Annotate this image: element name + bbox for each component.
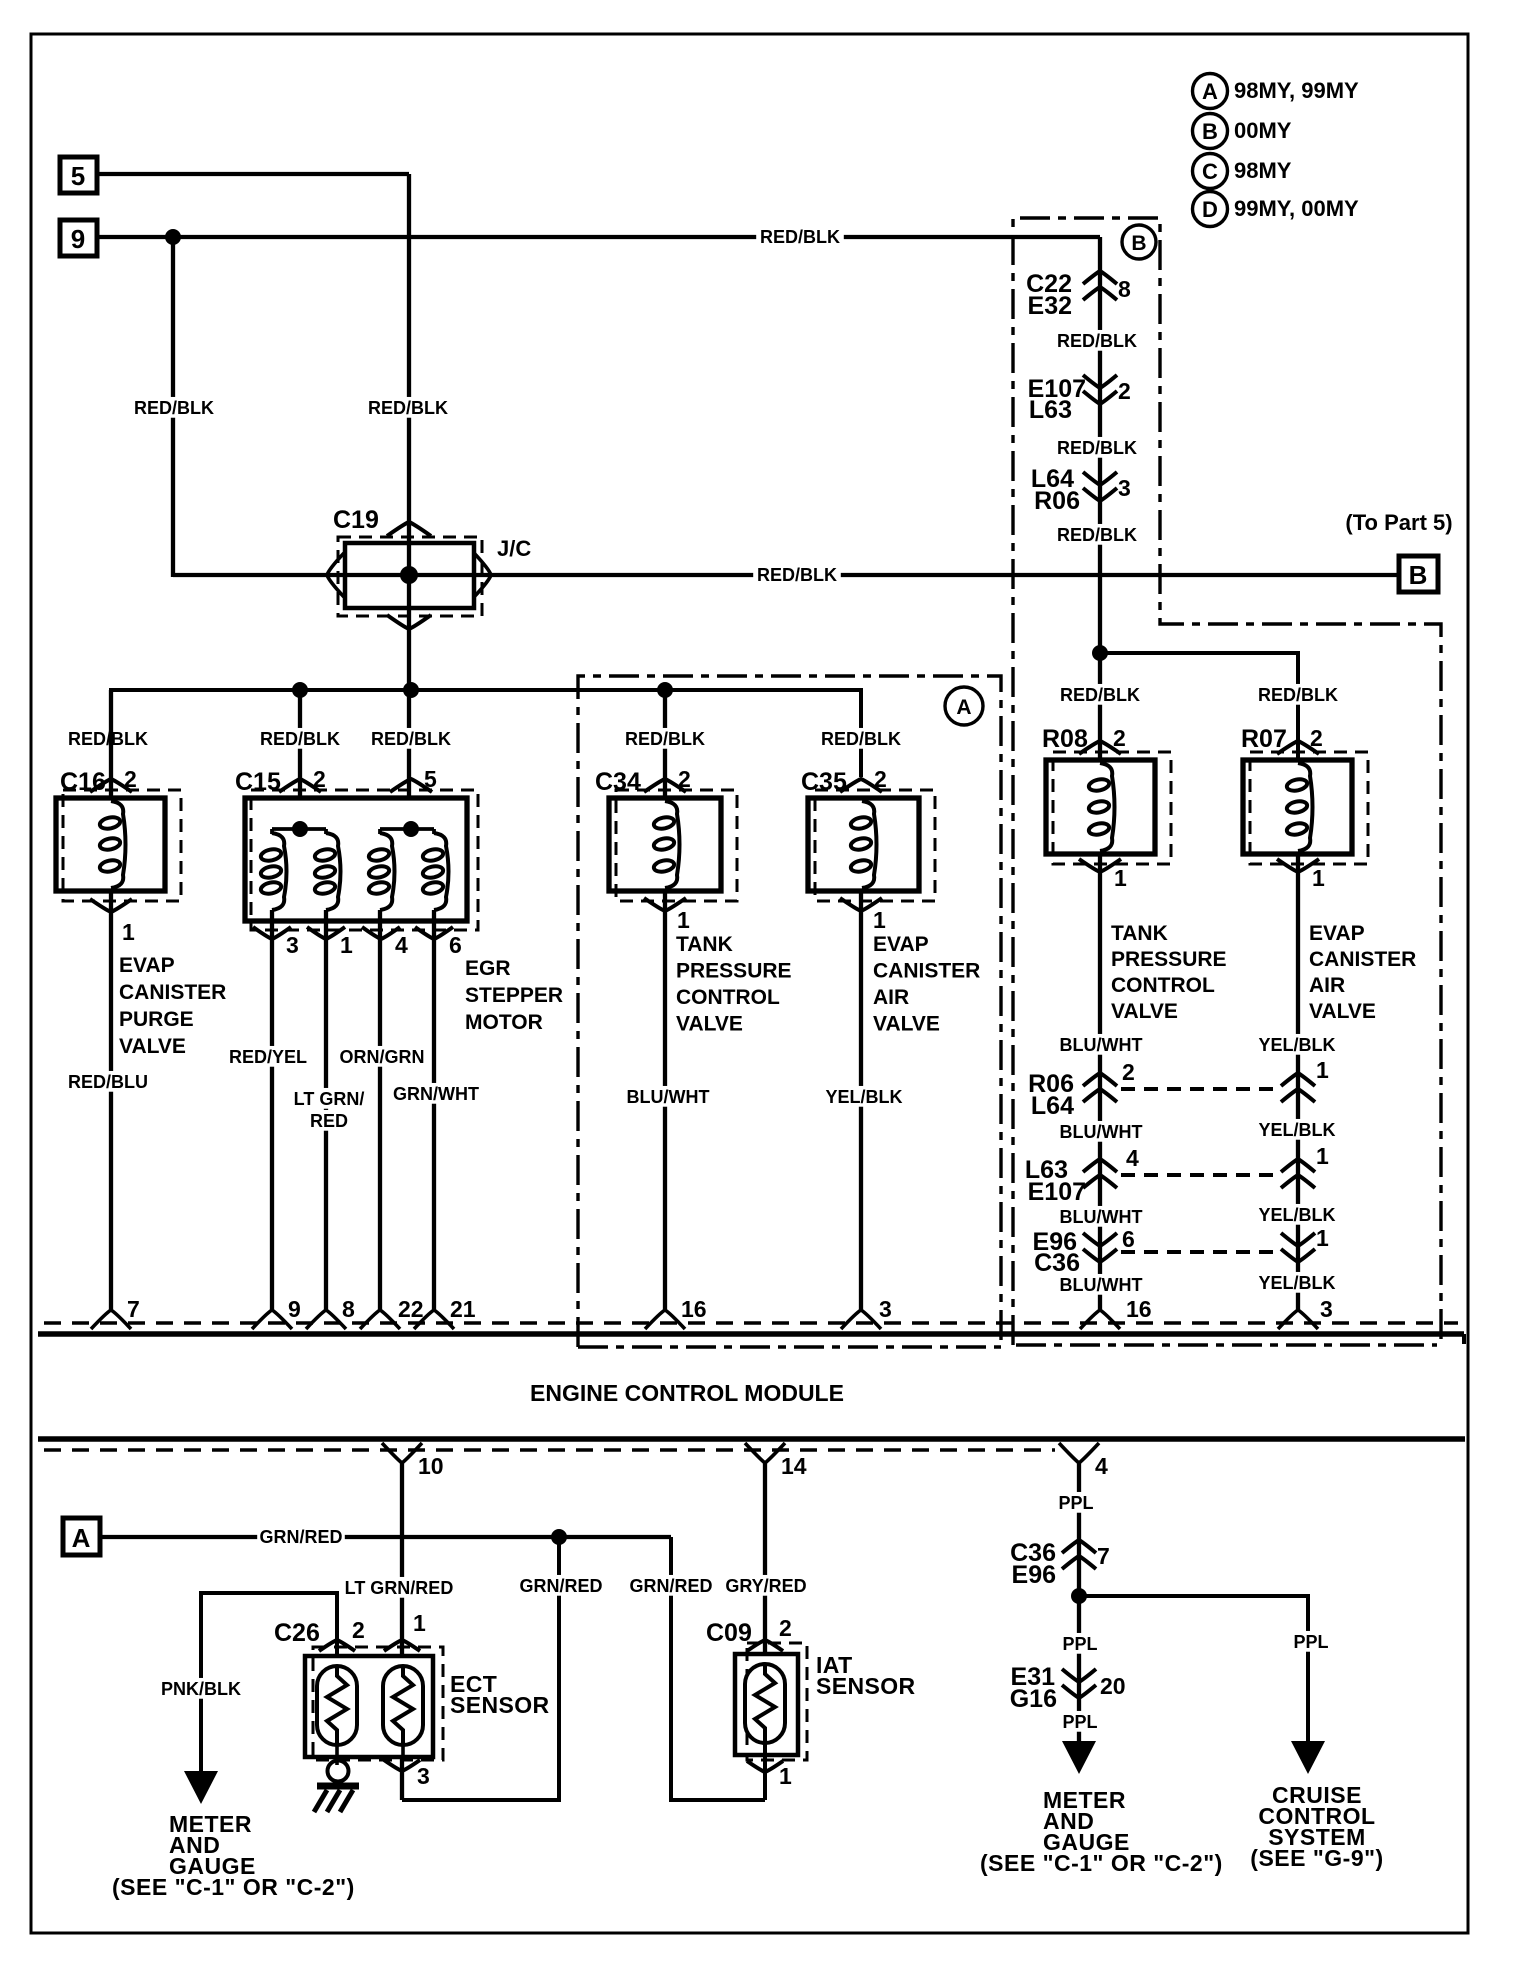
- svg-text:16: 16: [1126, 1296, 1152, 1322]
- inline connector mate pin 1 (row 1): [1281, 1057, 1329, 1102]
- svg-text:22: 22: [398, 1296, 424, 1322]
- label ORN/GRN: [338, 1046, 426, 1067]
- inline connector L63/E107 pin 4: [1025, 1145, 1139, 1206]
- svg-text:PPL: PPL: [1058, 1493, 1093, 1513]
- svg-text:L64: L64: [1031, 1092, 1074, 1120]
- solenoid valve C16 (EVAP canister purge valve): [56, 690, 181, 945]
- svg-text:2: 2: [124, 766, 137, 792]
- dashed link row 3: [1121, 1250, 1278, 1254]
- svg-text:9: 9: [71, 224, 85, 254]
- wire GRN/RED from terminal A: [100, 1535, 671, 1539]
- svg-text:RED/BLK: RED/BLK: [1057, 525, 1137, 545]
- ECM pin 14 chevron: [745, 1443, 807, 1479]
- label YEL/BLK row2: [1253, 1119, 1341, 1140]
- ECM connector dashed edge (lower): [44, 1448, 1055, 1452]
- svg-text:YEL/BLK: YEL/BLK: [1258, 1273, 1335, 1293]
- svg-text:2: 2: [313, 766, 326, 792]
- wire vertical from 5 to C19 and C15 pin 5: [407, 174, 411, 798]
- svg-text:LT GRN/: LT GRN/: [294, 1089, 365, 1109]
- svg-text:CANISTER: CANISTER: [119, 981, 226, 1004]
- label RED/BLK (R07 feed): [1254, 684, 1342, 705]
- svg-text:RED/YEL: RED/YEL: [229, 1047, 307, 1067]
- svg-text:8: 8: [342, 1296, 355, 1322]
- wire RED/BLK to (To Part 5) B: [173, 573, 1399, 577]
- wire GRN/RED drop to ECT pin3 link: [402, 1537, 559, 1800]
- legend note D: [1193, 192, 1360, 227]
- wire C15 pin3 to ECM pin 9 (RED/YEL): [270, 921, 274, 1311]
- svg-text:B: B: [1409, 560, 1428, 590]
- ECM pin 16 chevron: [1080, 1296, 1152, 1329]
- wire PNK/BLK from ECT pin2 to meter arrow: [201, 1593, 337, 1772]
- svg-text:CANISTER: CANISTER: [1309, 948, 1416, 971]
- svg-text:R06: R06: [1034, 487, 1080, 515]
- label EVAP CANISTER AIR VALVE (C35): [873, 933, 980, 1036]
- svg-text:L63: L63: [1029, 396, 1072, 424]
- svg-text:C26: C26: [274, 1619, 320, 1647]
- svg-text:STEPPER: STEPPER: [465, 984, 563, 1007]
- svg-text:2: 2: [1122, 1059, 1135, 1085]
- svg-text:GRY/RED: GRY/RED: [725, 1576, 806, 1596]
- wire LT GRN/RED from ECM pin 10 to ECT pin 1: [400, 1463, 404, 1656]
- svg-text:YEL/BLK: YEL/BLK: [825, 1087, 902, 1107]
- svg-text:PRESSURE: PRESSURE: [676, 960, 792, 983]
- ECM pin 22 chevron: [360, 1296, 424, 1329]
- svg-text:GRN/RED: GRN/RED: [259, 1527, 342, 1547]
- ECM pin 10 chevron: [382, 1443, 444, 1479]
- svg-text:1: 1: [873, 907, 886, 933]
- label RED/BLK bus drop: [64, 728, 152, 749]
- svg-text:J/C: J/C: [497, 536, 531, 561]
- label LT GRN/RED: [285, 1088, 373, 1131]
- svg-text:PURGE: PURGE: [119, 1008, 194, 1031]
- svg-text:4: 4: [1095, 1453, 1108, 1479]
- svg-text:AIR: AIR: [1309, 974, 1345, 997]
- label EVAP CANISTER PURGE VALVE: [119, 954, 226, 1058]
- svg-text:YEL/BLK: YEL/BLK: [1258, 1205, 1335, 1225]
- label RED/BLU: [64, 1071, 152, 1092]
- node junction C15 pin2 feed: [292, 682, 308, 698]
- label RED/BLK bus drop: [256, 728, 344, 749]
- svg-text:2: 2: [1113, 725, 1126, 751]
- svg-text:4: 4: [395, 932, 408, 958]
- ECM pin 16 chevron: [645, 1296, 707, 1329]
- wire branch to R07: [1100, 653, 1298, 760]
- svg-text:1: 1: [122, 919, 135, 945]
- svg-text:TANK: TANK: [676, 933, 733, 956]
- ECM upper bus solid line: [38, 1331, 1464, 1337]
- svg-text:(To Part 5): (To Part 5): [1345, 510, 1452, 535]
- junction connector C19 (J/C): [327, 506, 531, 629]
- svg-text:C09: C09: [706, 1619, 752, 1647]
- svg-text:E107: E107: [1028, 1178, 1086, 1206]
- label YEL/BLK (C35): [820, 1086, 908, 1107]
- connector terminal A: [63, 1518, 100, 1555]
- svg-text:3: 3: [286, 932, 299, 958]
- svg-text:RED/BLK: RED/BLK: [68, 729, 148, 749]
- label EGR STEPPER MOTOR: [465, 957, 563, 1034]
- svg-text:VALVE: VALVE: [1309, 1000, 1376, 1023]
- label CRUISE CONTROL SYSTEM (SEE G-9): [1250, 1782, 1383, 1871]
- svg-text:2: 2: [1118, 378, 1131, 404]
- svg-text:RED/BLK: RED/BLK: [1258, 685, 1338, 705]
- inline connector L64/R06 pin 3: [1031, 465, 1131, 515]
- solenoid valve R07 (EVAP canister air valve): [1241, 725, 1368, 891]
- svg-text:CANISTER: CANISTER: [873, 960, 980, 983]
- svg-text:BLU/WHT: BLU/WHT: [1060, 1207, 1143, 1227]
- label RED/BLK on long wire: [753, 564, 841, 585]
- ECT pin 3 chevron: [384, 1760, 430, 1789]
- svg-text:4: 4: [1126, 1145, 1139, 1171]
- svg-text:RED/BLK: RED/BLK: [757, 565, 837, 585]
- wire C15 pin4 to ECM pin 22 (ORN/GRN): [378, 921, 382, 1311]
- svg-text:PPL: PPL: [1062, 1634, 1097, 1654]
- svg-text:1: 1: [413, 1610, 426, 1636]
- svg-text:5: 5: [71, 161, 85, 191]
- label YEL/BLK row4: [1253, 1272, 1341, 1293]
- inline connector C36/E96 pin 7: [1010, 1539, 1110, 1589]
- label METER AND GAUGE (SEE C-1 OR C-2) right: [980, 1787, 1223, 1876]
- wire drop to C34 pin 2: [663, 690, 667, 798]
- connector terminal B (To Part 5): [1399, 556, 1438, 592]
- svg-text:20: 20: [1100, 1673, 1126, 1699]
- svg-text:B: B: [1131, 232, 1146, 255]
- svg-text:1: 1: [1114, 865, 1127, 891]
- svg-text:SENSOR: SENSOR: [450, 1692, 550, 1718]
- wire R07 pin1 to ECM pin 3 (YEL/BLK): [1296, 854, 1300, 1311]
- label RED/BLK bus drop: [621, 728, 709, 749]
- svg-text:D: D: [1202, 197, 1218, 222]
- svg-text:21: 21: [450, 1296, 476, 1322]
- svg-text:C: C: [1202, 159, 1218, 184]
- ECM pin 8 chevron: [306, 1296, 355, 1329]
- svg-text:TANK: TANK: [1111, 922, 1168, 945]
- solenoid valve C35 (EVAP canister air valve): [801, 766, 935, 933]
- wire R08 pin1 to ECM pin 16 (BLU/WHT): [1098, 854, 1102, 1311]
- svg-text:1: 1: [1312, 865, 1325, 891]
- svg-text:RED/BLK: RED/BLK: [625, 729, 705, 749]
- label RED/BLK wire to C19: [364, 397, 452, 418]
- svg-text:(SEE "C-1" OR "C-2"): (SEE "C-1" OR "C-2"): [112, 1874, 355, 1900]
- svg-text:CONTROL: CONTROL: [1111, 974, 1215, 997]
- svg-text:VALVE: VALVE: [119, 1035, 186, 1058]
- svg-text:C19: C19: [333, 506, 379, 534]
- label BLU/WHT row4: [1057, 1274, 1145, 1295]
- arrow to meter and gauge (right): [1062, 1741, 1096, 1774]
- svg-text:VALVE: VALVE: [676, 1013, 743, 1036]
- svg-text:C16: C16: [60, 768, 106, 796]
- node junction C34 feed: [657, 682, 673, 698]
- svg-text:BLU/WHT: BLU/WHT: [627, 1087, 710, 1107]
- label YEL/BLK row3: [1253, 1204, 1341, 1225]
- legend note A: [1193, 74, 1360, 109]
- wire C35 pin1 to ECM pin 3 (YEL/BLK): [859, 891, 863, 1311]
- wire RED/BLK 00MY branch down (C22/E32 path): [1098, 237, 1102, 760]
- svg-text:RED/BLK: RED/BLK: [371, 729, 451, 749]
- inline connector mate pin 1 (row 2): [1281, 1143, 1329, 1188]
- svg-text:E96: E96: [1012, 1561, 1056, 1589]
- svg-text:1: 1: [1316, 1143, 1329, 1169]
- svg-text:RED: RED: [310, 1111, 348, 1131]
- region A dash-dot outline (98MY,99MY): [578, 676, 1001, 1347]
- inline connector mate pin 1 (row 3): [1281, 1225, 1329, 1262]
- ECM pin 3 chevron: [841, 1296, 892, 1329]
- wire GRN/RED drop to IAT pin1 link: [671, 1537, 765, 1800]
- ECM pin 4 chevron: [1059, 1443, 1108, 1479]
- label GRN/WHT: [392, 1083, 480, 1104]
- wire ECT pin 3 down: [400, 1757, 404, 1800]
- svg-text:1: 1: [677, 907, 690, 933]
- thermistor sensor C26 (ECT sensor): [274, 1610, 443, 1765]
- ECM pin 3 chevron: [1278, 1296, 1333, 1329]
- label RED/BLK left vertical: [130, 397, 218, 418]
- connector terminal 9: [60, 220, 97, 256]
- ECM box corner right: [1462, 1334, 1466, 1344]
- node junction C19 feed: [403, 682, 419, 698]
- svg-text:6: 6: [449, 932, 462, 958]
- svg-text:G16: G16: [1010, 1685, 1057, 1713]
- inline connector E107/L63 pin 2: [1028, 375, 1131, 424]
- label RED/BLK on wire 9: [756, 226, 844, 247]
- svg-text:98MY: 98MY: [1234, 158, 1292, 183]
- wire C15 pin6 to ECM pin 21 (GRN/WHT): [432, 921, 436, 1311]
- svg-text:3: 3: [1118, 475, 1131, 501]
- wire from terminal 5 (RED/BLK): [97, 172, 409, 176]
- solenoid valve R08 (tank pressure control valve): [1042, 725, 1171, 891]
- svg-text:C15: C15: [235, 768, 281, 796]
- dashed link row 1: [1121, 1087, 1278, 1091]
- svg-text:EVAP: EVAP: [873, 933, 929, 956]
- svg-text:00MY: 00MY: [1234, 118, 1292, 143]
- svg-text:1: 1: [1316, 1057, 1329, 1083]
- label RED/BLK above junction: [1053, 524, 1141, 545]
- ECM pin 21 chevron: [414, 1296, 476, 1329]
- label GRN/RED on A wire: [257, 1526, 345, 1547]
- C15 pin chevrons: [253, 927, 291, 939]
- legend note C: [1193, 154, 1292, 189]
- svg-text:BLU/WHT: BLU/WHT: [1060, 1035, 1143, 1055]
- label GRY/RED: [722, 1575, 810, 1596]
- label TANK PRESSURE CONTROL VALVE (R08): [1111, 922, 1227, 1023]
- svg-text:EVAP: EVAP: [119, 954, 175, 977]
- wire PPL branch to cruise control: [1079, 1596, 1308, 1744]
- label RED/BLK (R08 feed): [1056, 684, 1144, 705]
- region marker circled A: [945, 687, 983, 725]
- label PPL above arrow: [1058, 1711, 1102, 1732]
- svg-text:14: 14: [781, 1453, 807, 1479]
- svg-text:(SEE "C-1" OR "C-2"): (SEE "C-1" OR "C-2"): [980, 1850, 1223, 1876]
- svg-text:2: 2: [779, 1615, 792, 1641]
- svg-text:2: 2: [678, 766, 691, 792]
- label RED/BLK below C22/E32: [1053, 330, 1141, 351]
- svg-text:RED/BLK: RED/BLK: [1060, 685, 1140, 705]
- svg-text:10: 10: [418, 1453, 444, 1479]
- svg-text:C36: C36: [1034, 1249, 1080, 1277]
- ECM pin 9 chevron: [252, 1296, 301, 1329]
- label PPL right branch: [1289, 1631, 1333, 1652]
- wire vertical from junction to C19 row: [171, 237, 175, 577]
- svg-text:7: 7: [127, 1296, 140, 1322]
- inline connector E31/G16 pin 20: [1010, 1663, 1126, 1713]
- stepper motor C15 (EGR stepper motor): [235, 766, 478, 958]
- svg-text:VALVE: VALVE: [873, 1013, 940, 1036]
- label METER AND GAUGE (SEE C-1 OR C-2) left: [112, 1811, 355, 1900]
- solenoid valve C34 (tank pressure control valve): [595, 766, 737, 933]
- svg-text:CONTROL: CONTROL: [676, 986, 780, 1009]
- svg-text:3: 3: [879, 1296, 892, 1322]
- svg-text:GRN/WHT: GRN/WHT: [393, 1084, 479, 1104]
- ground symbol (ECT): [314, 1761, 359, 1813]
- svg-text:1: 1: [340, 932, 353, 958]
- ECM connector dashed edge (upper): [44, 1321, 1458, 1325]
- svg-text:BLU/WHT: BLU/WHT: [1060, 1122, 1143, 1142]
- node junction feeding R08 and R07: [1092, 645, 1108, 661]
- svg-text:99MY, 00MY: 99MY, 00MY: [1234, 196, 1359, 221]
- label BLU/WHT row3: [1057, 1206, 1145, 1227]
- svg-text:ORN/GRN: ORN/GRN: [340, 1047, 425, 1067]
- wire RED/BLK distribution bus: [111, 690, 861, 787]
- inline connector E96/C36 pin 6: [1033, 1226, 1135, 1277]
- label IAT SENSOR: [816, 1652, 916, 1699]
- svg-text:A: A: [72, 1523, 91, 1553]
- region marker circled B: [1122, 225, 1156, 259]
- svg-text:EVAP: EVAP: [1309, 922, 1365, 945]
- svg-text:AIR: AIR: [873, 986, 909, 1009]
- svg-text:GRN/RED: GRN/RED: [519, 1576, 602, 1596]
- svg-text:ENGINE CONTROL MODULE: ENGINE CONTROL MODULE: [530, 1380, 844, 1406]
- arrow to cruise control system: [1291, 1741, 1325, 1774]
- svg-text:3: 3: [417, 1763, 430, 1789]
- label RED/BLK below E107/L63: [1053, 437, 1141, 458]
- arrow to meter and gauge (left): [184, 1771, 218, 1804]
- label RED/BLK bus drop: [817, 728, 905, 749]
- svg-text:7: 7: [1097, 1543, 1110, 1569]
- ECM pin 7 chevron: [91, 1296, 140, 1329]
- ECM lower bus solid line: [38, 1436, 1465, 1442]
- wire PPL from ECM pin 4: [1077, 1463, 1081, 1744]
- svg-text:R08: R08: [1042, 725, 1088, 753]
- dashed link row 2: [1121, 1173, 1278, 1177]
- label PNK/BLK: [157, 1678, 245, 1699]
- node junction on wire 9: [165, 229, 181, 245]
- wire from terminal 9 (RED/BLK): [97, 235, 1100, 239]
- svg-text:PPL: PPL: [1062, 1712, 1097, 1732]
- svg-text:3: 3: [1320, 1296, 1333, 1322]
- svg-text:2: 2: [352, 1617, 365, 1643]
- label RED/YEL: [224, 1046, 312, 1067]
- svg-text:BLU/WHT: BLU/WHT: [1060, 1275, 1143, 1295]
- svg-text:RED/BLK: RED/BLK: [1057, 438, 1137, 458]
- svg-text:EGR: EGR: [465, 957, 511, 980]
- svg-text:2: 2: [874, 766, 887, 792]
- svg-text:PNK/BLK: PNK/BLK: [161, 1679, 241, 1699]
- label EVAP CANISTER AIR VALVE (R07): [1309, 922, 1416, 1023]
- svg-text:YEL/BLK: YEL/BLK: [1258, 1120, 1335, 1140]
- label GRN/RED (ECT branch): [517, 1575, 605, 1596]
- label LT GRN/RED: [339, 1577, 459, 1598]
- svg-text:B: B: [1202, 119, 1218, 144]
- svg-text:PPL: PPL: [1293, 1632, 1328, 1652]
- svg-text:VALVE: VALVE: [1111, 1000, 1178, 1023]
- svg-text:8: 8: [1118, 276, 1131, 302]
- svg-text:(SEE "G-9"): (SEE "G-9"): [1250, 1845, 1383, 1871]
- svg-text:R07: R07: [1241, 725, 1287, 753]
- svg-text:16: 16: [681, 1296, 707, 1322]
- wire C15 pin1 to ECM pin 8 (LT GRN/RED): [324, 921, 328, 1311]
- label RED/BLK bus drop: [367, 728, 455, 749]
- svg-text:PRESSURE: PRESSURE: [1111, 948, 1227, 971]
- wire C16 pin1 to ECM pin 7 (RED/BLU): [109, 891, 113, 1311]
- svg-text:MOTOR: MOTOR: [465, 1011, 543, 1034]
- svg-text:A: A: [1202, 79, 1218, 104]
- node junction GRN/RED: [551, 1529, 567, 1545]
- svg-text:RED/BLK: RED/BLK: [821, 729, 901, 749]
- svg-text:RED/BLU: RED/BLU: [68, 1072, 148, 1092]
- svg-text:RED/BLK: RED/BLK: [134, 398, 214, 418]
- inline connector R06/L64 pin 2: [1028, 1059, 1135, 1120]
- label BLU/WHT above R06/L64: [1057, 1034, 1145, 1055]
- svg-text:1: 1: [779, 1763, 792, 1789]
- wire GRY/RED from ECM pin 14 to IAT pin 2: [763, 1463, 767, 1654]
- label YEL/BLK above R06/L64 row: [1253, 1034, 1341, 1055]
- svg-text:GRN/RED: GRN/RED: [629, 1576, 712, 1596]
- svg-text:RED/BLK: RED/BLK: [760, 227, 840, 247]
- svg-text:E32: E32: [1028, 292, 1072, 320]
- label BLU/WHT (C34): [624, 1086, 712, 1107]
- svg-text:RED/BLK: RED/BLK: [368, 398, 448, 418]
- svg-text:2: 2: [1310, 725, 1323, 751]
- svg-text:1: 1: [1316, 1225, 1329, 1251]
- svg-text:LT GRN/RED: LT GRN/RED: [345, 1578, 454, 1598]
- connector terminal 5: [60, 157, 97, 193]
- svg-text:5: 5: [424, 766, 437, 792]
- svg-text:A: A: [956, 696, 971, 719]
- legend note B: [1193, 114, 1292, 149]
- svg-text:98MY, 99MY: 98MY, 99MY: [1234, 78, 1359, 103]
- svg-text:YEL/BLK: YEL/BLK: [1258, 1035, 1335, 1055]
- svg-text:6: 6: [1122, 1226, 1135, 1252]
- label ECT SENSOR: [450, 1671, 550, 1718]
- svg-text:9: 9: [288, 1296, 301, 1322]
- thermistor sensor C09 (IAT sensor): [706, 1615, 807, 1800]
- label PPL top: [1054, 1492, 1098, 1513]
- svg-text:RED/BLK: RED/BLK: [260, 729, 340, 749]
- wire drop to C15 pin 2: [298, 690, 302, 798]
- label TANK PRESSURE CONTROL VALVE (C34): [676, 933, 792, 1036]
- region B dash-dot outline (00MY): [1013, 218, 1441, 1345]
- label GRN/RED (IAT branch): [627, 1575, 715, 1596]
- svg-text:C35: C35: [801, 768, 847, 796]
- svg-text:C34: C34: [595, 768, 641, 796]
- label BLU/WHT row2: [1057, 1121, 1145, 1142]
- wire C34 pin1 to ECM pin 16 (BLU/WHT): [663, 891, 667, 1311]
- svg-text:SENSOR: SENSOR: [816, 1673, 916, 1699]
- inline connector C22/E32 pin 8: [1026, 270, 1131, 320]
- node junction PPL: [1071, 1588, 1087, 1604]
- label PPL left branch: [1058, 1633, 1102, 1654]
- svg-text:RED/BLK: RED/BLK: [1057, 331, 1137, 351]
